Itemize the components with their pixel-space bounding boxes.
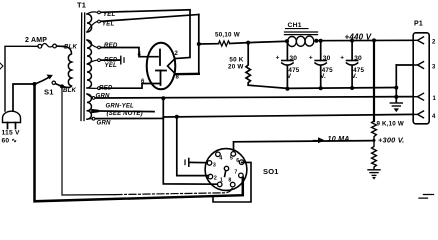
svg-text:+: + bbox=[309, 55, 313, 62]
mark bottom right bbox=[419, 195, 434, 199]
junction heater line bbox=[175, 115, 179, 119]
svg-text:6: 6 bbox=[141, 79, 145, 85]
P1 pin 1 arrow bbox=[413, 93, 424, 100]
B+ bus to resistor bbox=[199, 43, 219, 45]
wire junction down to socket pin 2 bbox=[177, 117, 209, 176]
fuse F1 2 AMP bbox=[25, 37, 63, 48]
resistor R1 50,10W bbox=[215, 32, 240, 46]
RED-YEL center tap lead bbox=[87, 60, 97, 64]
tube plate 1 (pin 4) bbox=[159, 50, 161, 66]
10 MA line from socket pin 5 bbox=[234, 141, 375, 151]
junction GRN line to ground bbox=[394, 95, 398, 99]
GRN-YEL center tap lead (see note) bbox=[87, 110, 90, 112]
capacitor C1 30/475V bbox=[276, 41, 300, 90]
P1 pin 2 arrow bbox=[413, 37, 424, 44]
ground (chassis near P1) bbox=[390, 103, 402, 111]
svg-text:V.: V. bbox=[352, 73, 358, 80]
transformer primary winding bbox=[66, 47, 72, 88]
socket pin 2 bbox=[208, 174, 213, 179]
svg-text:YEL: YEL bbox=[105, 62, 118, 69]
tube plate 2 (pin 6) bbox=[156, 71, 166, 86]
transformer core bbox=[81, 13, 85, 121]
wire fuse to transformer primary bbox=[63, 45, 66, 47]
P1 pin 3 arrow bbox=[413, 62, 424, 69]
svg-text:2: 2 bbox=[175, 51, 179, 57]
svg-text:GRN-YEL: GRN-YEL bbox=[106, 104, 135, 110]
heater line to P1 pin 4 bbox=[163, 114, 412, 117]
YEL lead 1 eyelet and wire bbox=[87, 12, 97, 14]
svg-text:30: 30 bbox=[323, 55, 331, 62]
ground (bleeder bottom) bbox=[368, 170, 380, 179]
wire GRN line down to socket pin 1 bbox=[163, 98, 217, 184]
resistor R3 9K,10W upper section bbox=[372, 121, 404, 141]
svg-text:4: 4 bbox=[432, 114, 436, 120]
svg-text:4: 4 bbox=[138, 52, 142, 58]
socket pin 8 bbox=[230, 182, 235, 187]
junction B+ takeoff bbox=[197, 42, 201, 46]
svg-text:10 MA.: 10 MA. bbox=[328, 134, 352, 143]
svg-text:+: + bbox=[340, 55, 344, 62]
svg-text:5: 5 bbox=[230, 156, 233, 162]
rectifier tube V1 envelope bbox=[147, 43, 176, 90]
svg-text:2 AMP: 2 AMP bbox=[25, 37, 47, 44]
socket pin 4 bbox=[216, 152, 221, 157]
svg-text:T1: T1 bbox=[77, 1, 86, 10]
RED lead 2 (bottom plate) bbox=[87, 87, 97, 89]
svg-text:P1: P1 bbox=[414, 21, 423, 28]
svg-text:V: V bbox=[287, 73, 292, 80]
socket pin 6 bbox=[239, 160, 244, 165]
svg-text:RED: RED bbox=[99, 85, 113, 92]
wire YEL1 down to tube pin 2 bbox=[176, 10, 190, 59]
svg-text:20 W: 20 W bbox=[228, 63, 244, 70]
svg-text:1: 1 bbox=[220, 178, 223, 184]
switch S1 bbox=[33, 75, 56, 97]
socket SO1 outline bbox=[205, 149, 247, 191]
junction GRN line bbox=[161, 96, 165, 100]
bleeder feed wire bbox=[373, 40, 375, 121]
+440V bus to P1 pin 2 bbox=[316, 39, 412, 41]
filter minus bus bbox=[248, 85, 396, 88]
wire switch to primary bottom bbox=[56, 84, 67, 88]
socket keyway bbox=[224, 166, 228, 170]
svg-text:7: 7 bbox=[234, 170, 237, 176]
branch rail to socket pin 6 bbox=[213, 162, 251, 202]
socket pin 1 bbox=[217, 182, 222, 187]
svg-text:30: 30 bbox=[354, 55, 362, 62]
P1 pin 4 arrow bbox=[413, 111, 424, 118]
svg-text:CH1: CH1 bbox=[288, 22, 302, 29]
GRN lead 2 wire to junction bbox=[87, 118, 93, 121]
wire plug left prong to fuse bbox=[5, 46, 38, 111]
choke CH1 bbox=[285, 22, 319, 47]
svg-text:RED: RED bbox=[104, 42, 118, 49]
resistor R2 50K 20W bbox=[228, 43, 250, 86]
capacitor C2 30/475V bbox=[309, 39, 333, 91]
svg-text:50,10 W: 50,10 W bbox=[215, 32, 240, 39]
GRN lead 1 and long wire to P1 pin 1 bbox=[87, 94, 93, 98]
socket pin 3 bbox=[207, 161, 212, 166]
svg-text:V.: V. bbox=[320, 73, 326, 80]
P1 pin 3 lead bbox=[396, 64, 413, 66]
socket pin 5 bbox=[231, 152, 236, 157]
P1 ground branch vertical bbox=[395, 65, 397, 103]
svg-text:SO1: SO1 bbox=[263, 167, 279, 176]
svg-text:30: 30 bbox=[289, 55, 297, 62]
junction bleeder top bbox=[372, 38, 376, 42]
svg-text:+: + bbox=[276, 55, 280, 62]
svg-text:YEL: YEL bbox=[103, 11, 116, 18]
transformer HV winding (RED) bbox=[87, 40, 92, 88]
svg-text:9 K,10 W: 9 K,10 W bbox=[377, 121, 404, 128]
socket pin 7 bbox=[239, 173, 244, 178]
socket pin 3 lead with termination bars bbox=[189, 161, 207, 163]
svg-text:60 ∿: 60 ∿ bbox=[2, 138, 18, 145]
AC rail A (thin) from primary to socket pin 8 bbox=[62, 86, 115, 195]
svg-text:2: 2 bbox=[432, 40, 436, 46]
resistor R3 lower section bbox=[372, 140, 377, 169]
svg-text:115 V: 115 V bbox=[2, 130, 20, 137]
small mark left edge bbox=[0, 63, 3, 69]
svg-text:8: 8 bbox=[228, 178, 231, 184]
YEL lead 2 eyelet and wire bbox=[87, 22, 97, 32]
bus resistor to choke bbox=[230, 41, 287, 43]
svg-text:+440 V: +440 V bbox=[345, 33, 372, 42]
wire tube pin 8 lead bbox=[176, 73, 199, 76]
connector P1 body bbox=[413, 21, 429, 124]
wire plug right prong to switch bbox=[13, 84, 33, 111]
svg-text:3: 3 bbox=[213, 163, 216, 169]
plug 115V 60cy AC bbox=[2, 111, 21, 144]
capacitor C3 30/475V bbox=[340, 39, 364, 90]
junction filter minus to ground bbox=[394, 86, 398, 90]
svg-text:S1: S1 bbox=[44, 88, 54, 97]
svg-text:6: 6 bbox=[236, 158, 239, 164]
svg-text:GRN: GRN bbox=[97, 119, 112, 126]
transformer 6.3V winding (GRN) bbox=[87, 94, 92, 119]
svg-text:2: 2 bbox=[214, 176, 217, 182]
transformer 5V winding (YEL) bbox=[87, 14, 92, 32]
wire YEL2 down to tube pin 8 bbox=[198, 15, 200, 74]
svg-text:BLK: BLK bbox=[63, 87, 77, 94]
svg-text:4: 4 bbox=[219, 156, 222, 162]
svg-text:8: 8 bbox=[176, 75, 180, 81]
svg-text:3: 3 bbox=[432, 64, 436, 70]
junction 50K tap bbox=[246, 41, 250, 45]
svg-text:+300 V.: +300 V. bbox=[378, 135, 404, 144]
AC rail B (bold) from switch to socket pin 7 bbox=[35, 84, 243, 201]
svg-text:GRN: GRN bbox=[96, 93, 111, 100]
RED lead 1 (top plate) bbox=[87, 40, 97, 47]
tube filament (pins 2,8) bbox=[168, 59, 176, 74]
svg-text:YEL: YEL bbox=[102, 20, 115, 27]
svg-text:(SEE NOTE): (SEE NOTE) bbox=[107, 111, 143, 117]
junction switch blade side bbox=[60, 84, 64, 88]
svg-text:1: 1 bbox=[433, 96, 437, 102]
